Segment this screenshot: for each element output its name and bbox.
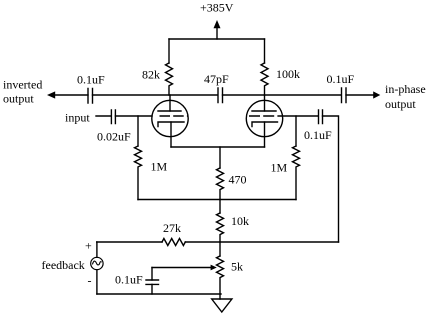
potentiometer R 5k — [217, 256, 224, 299]
tube V1 cathode — [158, 122, 184, 127]
resistor R 1M right — [293, 146, 300, 200]
svg-text:-: - — [88, 274, 92, 288]
tube V1 cathode lead — [170, 122, 172, 147]
tube V2 plate — [252, 110, 276, 112]
wire grid V2 to junction — [283, 115, 318, 117]
tube V2 plate lead — [264, 95, 266, 111]
wire output rail center-right — [223, 94, 342, 96]
svg-text:82k: 82k — [142, 68, 160, 82]
svg-text:feedback: feedback — [42, 258, 85, 272]
wire input lead — [96, 115, 111, 117]
wire top rail — [169, 38, 265, 40]
wire right drop to 100k — [264, 39, 266, 63]
resistor R 470 — [217, 168, 224, 200]
resistor R 82k — [166, 63, 173, 95]
ground — [212, 299, 232, 312]
svg-text:in-phase: in-phase — [385, 82, 426, 96]
tube V2 envelope — [246, 100, 282, 136]
svg-text:0.1uF: 0.1uF — [77, 73, 105, 87]
svg-text:5k: 5k — [231, 260, 243, 274]
svg-text:+: + — [85, 239, 92, 253]
resistor R 10k — [217, 213, 224, 242]
svg-text:inverted: inverted — [3, 78, 42, 92]
svg-text:47pF: 47pF — [204, 72, 229, 86]
tube V2 cathode — [252, 122, 278, 127]
svg-text:0.1uF: 0.1uF — [327, 72, 355, 86]
tube V1 plate — [158, 110, 181, 112]
wire to in-phase arrow — [346, 94, 373, 96]
wire cathode trunk — [219, 147, 221, 168]
svg-text:27k: 27k — [163, 221, 181, 235]
source FB circle — [91, 257, 103, 269]
tube V1 grid — [160, 115, 189, 117]
svg-text:1M: 1M — [271, 161, 288, 175]
svg-text:output: output — [3, 92, 34, 106]
svg-text:1M: 1M — [151, 160, 168, 174]
svg-text:100k: 100k — [276, 67, 300, 81]
supply arrow — [216, 27, 218, 39]
svg-text:0.1uF: 0.1uF — [115, 273, 143, 287]
tube V2 cathode lead — [264, 122, 266, 147]
wire V2 grid drop to 1M right — [295, 116, 297, 146]
capacitor C 47pF — [218, 88, 223, 103]
svg-text:470: 470 — [229, 173, 247, 187]
capacitor C 0.1uF feedback right — [319, 110, 323, 124]
wiper arrow — [152, 267, 211, 269]
svg-text:output: output — [385, 97, 416, 111]
wire input to grid — [115, 115, 152, 117]
capacitor C 0.02uF input — [111, 110, 115, 124]
wire junction input to 1M left — [137, 116, 139, 146]
wire cap to corner and down — [323, 116, 339, 242]
wire wiper corner down — [151, 268, 153, 281]
wire left drop to 82k — [168, 39, 170, 63]
inverted output arrow — [54, 94, 88, 96]
capacitor C 0.1uF left output — [88, 89, 93, 104]
tube V1 envelope — [152, 100, 188, 136]
capacitor C 0.1uF right output — [342, 88, 347, 103]
source FB sine — [93, 261, 102, 265]
tube V2 grid — [249, 115, 283, 117]
wire cap to bottom rail — [151, 284, 153, 294]
tube V1 plate lead — [169, 95, 171, 111]
svg-text:0.1uF: 0.1uF — [304, 128, 332, 142]
svg-text:10k: 10k — [231, 214, 249, 228]
resistor R 27k — [162, 239, 185, 246]
capacitor C 0.1uF bottom — [146, 280, 159, 284]
wire 470 to 10k — [219, 200, 221, 214]
svg-text:input: input — [65, 111, 90, 125]
svg-text:0.02uF: 0.02uF — [97, 130, 131, 144]
wire grid bias rail y199 — [138, 199, 296, 201]
resistor R 1M left — [135, 146, 142, 200]
wire source top lead — [96, 242, 98, 257]
wire source bottom lead — [96, 270, 98, 294]
wire 10k to 5k — [219, 242, 221, 256]
wire output rail left-center — [93, 94, 218, 96]
svg-text:+385V: +385V — [200, 1, 234, 15]
wire cathode bus — [171, 146, 265, 148]
resistor R 100k — [261, 63, 268, 95]
wire bottom rail — [97, 293, 221, 295]
wire 27k to right corner — [185, 241, 338, 243]
wire feedback rail y242 — [97, 241, 162, 243]
